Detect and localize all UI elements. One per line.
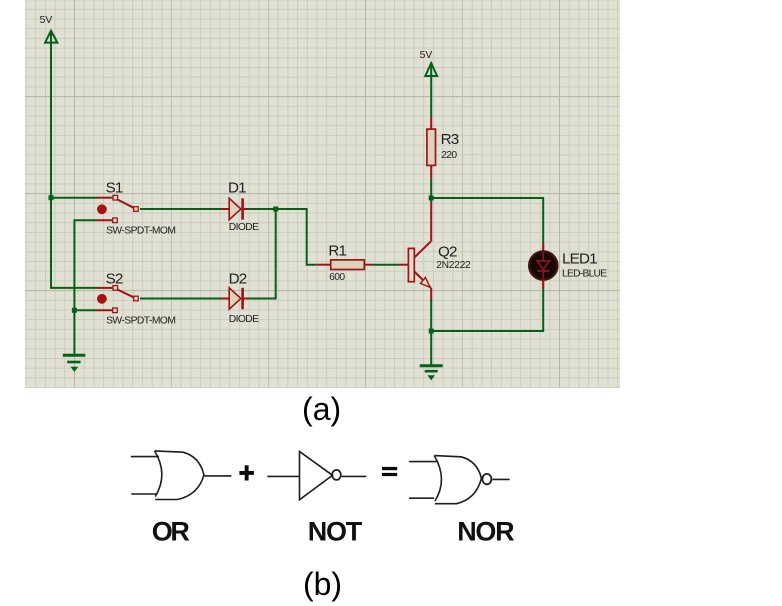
svg-text:SW-SPDT-MOM: SW-SPDT-MOM bbox=[106, 316, 175, 327]
node junction emitter/LED bottom bbox=[429, 329, 434, 334]
plus sign bbox=[239, 465, 254, 480]
svg-text:2N2222: 2N2222 bbox=[436, 260, 471, 271]
svg-text:5V: 5V bbox=[40, 15, 53, 26]
wire LED bottom to emitter node bbox=[431, 288, 543, 331]
power symbol 5V (left rail) bbox=[45, 31, 57, 43]
svg-text:LED-BLUE: LED-BLUE bbox=[562, 268, 607, 279]
wire R3 bottom to collector node bbox=[430, 179, 432, 202]
equals sign bbox=[382, 467, 397, 476]
wire 5V rail vertical + feed to S2 top bbox=[51, 31, 97, 288]
resistor R1 bbox=[316, 260, 373, 270]
svg-text:600: 600 bbox=[329, 272, 345, 283]
svg-text:Q2: Q2 bbox=[438, 244, 457, 261]
wire S2 bottom to ground rail bbox=[74, 309, 96, 311]
wire D1 node down to D2 output bbox=[249, 209, 276, 299]
ground (center) bbox=[420, 366, 443, 380]
wire 5V rail to S1 top bbox=[51, 197, 97, 199]
svg-text:S1: S1 bbox=[106, 179, 123, 196]
ground (left) bbox=[63, 355, 86, 371]
svg-text:220: 220 bbox=[441, 150, 457, 161]
svg-text:R1: R1 bbox=[328, 243, 346, 260]
svg-text:(a): (a) bbox=[302, 391, 341, 427]
svg-text:(b): (b) bbox=[303, 566, 342, 602]
wire S1 common to D1 bbox=[140, 208, 221, 210]
svg-text:NOT: NOT bbox=[308, 517, 363, 547]
switch S1 (SW-SPDT-MOM) bbox=[97, 195, 139, 222]
wire 5V to R3 bbox=[430, 64, 432, 118]
svg-text:SW-SPDT-MOM: SW-SPDT-MOM bbox=[106, 225, 175, 236]
wire emitter to ground / LED bottom bbox=[430, 300, 432, 365]
power symbol 5V (R3 rail) bbox=[425, 63, 437, 76]
svg-text:DIODE: DIODE bbox=[229, 314, 259, 325]
schematic sheet background bbox=[25, 0, 620, 388]
svg-text:LED1: LED1 bbox=[562, 250, 597, 267]
wire ground rail from S1 bottom bbox=[74, 220, 96, 353]
svg-text:D2: D2 bbox=[229, 271, 247, 288]
LED1 (LED-BLUE) bbox=[529, 243, 557, 289]
wire R1 to Q2 base bbox=[373, 264, 399, 266]
resistor R3 bbox=[427, 118, 436, 179]
wire S2 common to D2 bbox=[140, 298, 221, 300]
diode D2 bbox=[221, 288, 249, 309]
NOR gate symbol bbox=[409, 456, 510, 504]
node junction at D1 output bbox=[273, 207, 278, 212]
node junction collector/R3/LED bbox=[429, 196, 434, 201]
svg-text:OR: OR bbox=[152, 517, 190, 547]
svg-text:D1: D1 bbox=[228, 179, 246, 196]
switch S2 (SW-SPDT-MOM) bbox=[97, 286, 139, 313]
svg-text:NOR: NOR bbox=[457, 517, 514, 547]
wire collector node to LED top bbox=[431, 198, 543, 244]
transistor Q2 (2N2222) bbox=[399, 202, 431, 301]
svg-text:R3: R3 bbox=[441, 131, 459, 148]
NOT gate symbol bbox=[267, 452, 366, 500]
node junction ground rail / S2 bbox=[72, 308, 77, 313]
diode D1 bbox=[221, 198, 249, 219]
wire D1 node to R1 bbox=[249, 209, 317, 265]
svg-text:DIODE: DIODE bbox=[229, 222, 259, 233]
OR gate symbol bbox=[131, 451, 232, 500]
svg-text:5V: 5V bbox=[420, 50, 433, 61]
svg-text:S2: S2 bbox=[106, 271, 123, 288]
node junction at 5V rail / S1 bbox=[49, 195, 54, 200]
